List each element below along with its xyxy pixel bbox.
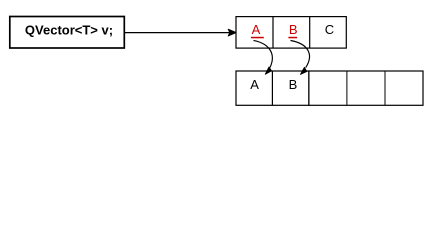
svg-text:A: A (250, 77, 259, 92)
svg-text:A: A (252, 22, 261, 37)
node B (old, red) (288, 22, 297, 38)
node A (old, red) (251, 22, 264, 38)
svg-text:B: B (289, 77, 298, 92)
curved arrow A -> new A (254, 41, 273, 75)
svg-text:C: C (325, 22, 334, 37)
bottom array group 2 (3 empty cells) (309, 71, 423, 105)
bottom array group 1 (cells A,B) (236, 71, 309, 105)
svg-text:B: B (289, 22, 298, 37)
box QVector<T> v; (10, 17, 125, 49)
top array (3 cells) (236, 17, 346, 48)
svg-text:QVector<T> v;: QVector<T> v; (25, 23, 113, 38)
curved arrow B -> new B (291, 41, 310, 75)
wire pointer arrow from v to array (124, 29, 236, 36)
